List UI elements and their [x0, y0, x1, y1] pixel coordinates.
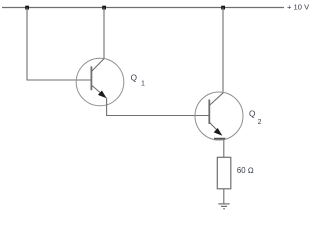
svg-text:+ 10 V: + 10 V — [287, 2, 310, 11]
transistor Q1 — [76, 58, 124, 106]
wire Q1 collector to rail — [103, 8, 105, 60]
wire rail to Q1 base (down and right) — [27, 8, 91, 81]
svg-text:60 Ω: 60 Ω — [237, 166, 254, 175]
wire Q2 collector to rail — [222, 8, 224, 94]
wire Q2 emitter to resistor — [223, 139, 225, 158]
resistor R1 — [217, 157, 231, 189]
wire resistor to ground — [223, 189, 225, 204]
transistor Q2 — [195, 92, 243, 140]
svg-text:Q: Q — [131, 73, 137, 82]
svg-text:1: 1 — [141, 80, 145, 87]
node junction at Q2 collector — [221, 6, 225, 10]
node junction at Q1 collector — [102, 6, 106, 10]
label Q2 — [249, 110, 262, 126]
node junction at left branch — [25, 6, 29, 10]
ground — [218, 204, 229, 209]
wire Q1 emitter to Q2 base — [107, 98, 209, 116]
wire top +10V rail — [2, 7, 284, 9]
svg-text:2: 2 — [258, 119, 262, 126]
svg-text:Q: Q — [249, 110, 255, 119]
label Q1 — [131, 73, 145, 87]
